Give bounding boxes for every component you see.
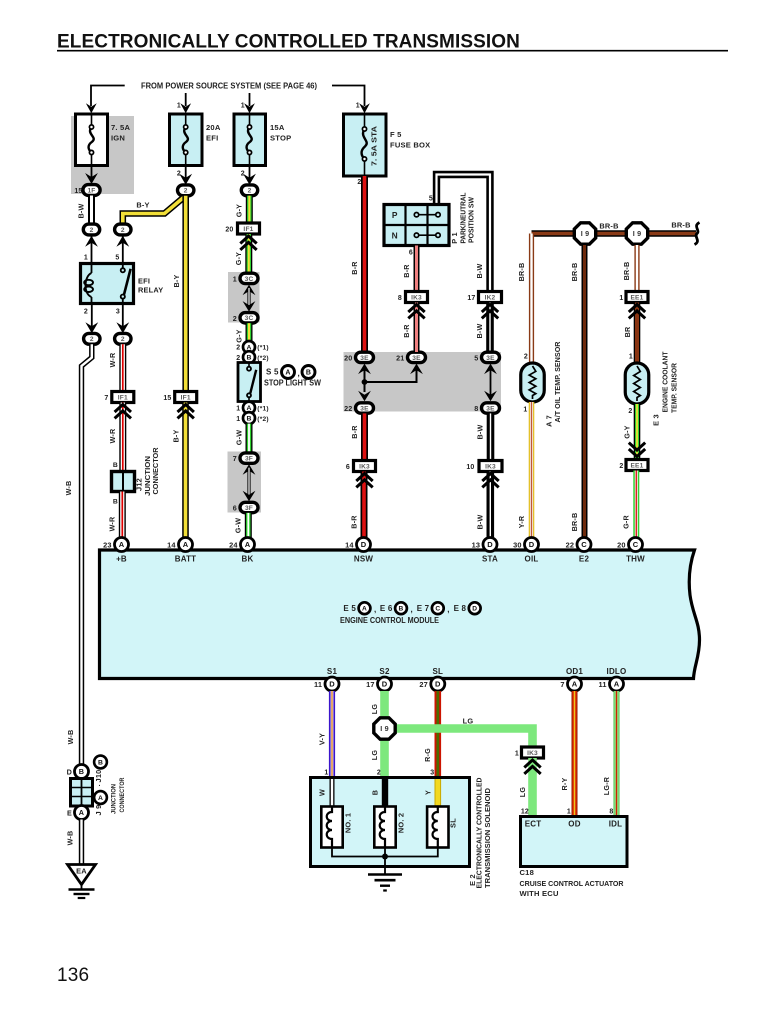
wire relay pin3 down — [122, 304, 124, 328]
chevron below 6 IK3 — [356, 474, 372, 482]
svg-text:BR-B: BR-B — [517, 263, 526, 282]
svg-text:6: 6 — [346, 464, 350, 471]
svg-text:G-W: G-W — [234, 430, 243, 445]
svg-text:IF1: IF1 — [243, 226, 253, 233]
wire relay pin2 down — [91, 304, 93, 328]
arrow up below 5 3E — [484, 364, 497, 375]
fuse 20A EFI — [170, 114, 203, 166]
switch S5 stop light box — [238, 363, 261, 402]
svg-text:BR-B: BR-B — [570, 263, 579, 282]
svg-text:W-B: W-B — [64, 481, 73, 496]
wire LG horizontal bus — [393, 729, 533, 748]
solenoid coil SL — [427, 807, 448, 848]
connector 1 3C — [240, 273, 258, 283]
svg-text:14: 14 — [167, 541, 176, 550]
wire W-R J12 to ECM +B — [119, 492, 126, 538]
wire B-W IGN fuse to relay connector — [88, 196, 95, 225]
svg-text:IK3: IK3 — [411, 294, 422, 301]
svg-text:E2: E2 — [579, 555, 590, 564]
svg-text:W-B: W-B — [66, 831, 75, 846]
wire R-Y OD1 to cruise OD — [572, 691, 578, 817]
pin circle A J9 — [94, 791, 107, 804]
svg-text:D: D — [361, 540, 367, 549]
svg-text:D: D — [329, 680, 335, 689]
connector 6 IK3 — [354, 461, 376, 472]
svg-text:1: 1 — [241, 103, 245, 110]
wire W inside solenoid — [330, 779, 335, 807]
svg-text:23: 23 — [103, 541, 112, 550]
arrow up below 20 3E — [358, 364, 371, 375]
wire W-B relay to junction connector — [82, 344, 92, 765]
svg-text:.: . — [99, 781, 101, 788]
svg-text:2: 2 — [184, 188, 188, 195]
wire connector to EFI relay pin 5 — [122, 237, 124, 264]
wire connector to EFI relay pin 1 — [91, 237, 93, 264]
svg-text:EE1: EE1 — [630, 294, 643, 301]
svg-text:D: D — [435, 680, 441, 689]
svg-text:1: 1 — [84, 255, 88, 262]
svg-text:A: A — [79, 808, 84, 817]
wire Y inside solenoid — [434, 779, 441, 807]
svg-text:2: 2 — [90, 227, 94, 234]
svg-text:5: 5 — [474, 354, 478, 363]
arrow down above 6 3F — [243, 491, 256, 502]
svg-text:136: 136 — [57, 965, 89, 986]
svg-text:12: 12 — [521, 809, 529, 816]
connector 7 IF1 — [112, 392, 134, 403]
svg-text:22: 22 — [344, 404, 352, 413]
svg-text:ENGINE CONTROL MODULE: ENGINE CONTROL MODULE — [340, 616, 440, 625]
svg-text:BR-B: BR-B — [622, 262, 631, 281]
continuation curl — [695, 223, 700, 245]
wire V-Y S1 to solenoid — [329, 691, 335, 778]
svg-text:2: 2 — [628, 408, 632, 415]
svg-text:10: 10 — [466, 464, 474, 471]
arrow down above 22 3E — [358, 391, 371, 402]
svg-text:A: A — [183, 540, 189, 549]
gray panel behind 3E — [344, 352, 502, 412]
arrow into EFI fuse — [180, 103, 191, 113]
ECM engine control module box — [100, 550, 700, 679]
sensor E3 engine coolant temp — [625, 363, 649, 404]
svg-text:NO. 2: NO. 2 — [397, 813, 406, 833]
connector 5 3E — [482, 352, 500, 362]
svg-text:1: 1 — [629, 354, 633, 361]
svg-text:EA: EA — [76, 867, 87, 876]
svg-text:3E: 3E — [360, 355, 369, 362]
svg-text:B-R: B-R — [350, 425, 359, 439]
svg-text:THW: THW — [626, 555, 645, 564]
svg-text:1: 1 — [324, 770, 328, 777]
svg-text:LG: LG — [370, 704, 379, 715]
relay EFI RELAY box — [81, 264, 134, 304]
arrow into connector 1F — [85, 173, 98, 184]
junction connector J12 — [112, 472, 135, 492]
wire B-W P/N pin5 up and over — [437, 175, 491, 292]
svg-text:TEMP. SENSOR: TEMP. SENSOR — [670, 362, 679, 413]
svg-text:STA: STA — [482, 555, 498, 564]
svg-text:D: D — [487, 540, 493, 549]
wire branch to 21 3E — [365, 367, 417, 382]
svg-text:B-R: B-R — [350, 261, 359, 275]
wire EFI fuse feed — [185, 93, 187, 106]
wire G-Y IF1 to 3C — [245, 234, 252, 273]
svg-text:(*1): (*1) — [257, 345, 268, 352]
svg-text:(*2): (*2) — [257, 355, 268, 362]
connector 8 3E — [482, 403, 500, 413]
svg-text:S1: S1 — [327, 667, 338, 676]
connector 8 IK3 — [406, 292, 428, 303]
svg-text:1F: 1F — [87, 187, 95, 194]
wire solenoid commons — [332, 848, 438, 857]
svg-text:E 5: E 5 — [343, 604, 356, 613]
wire G-Y 3C to stop light switch — [246, 323, 253, 342]
svg-text:2: 2 — [524, 354, 528, 361]
svg-text:D: D — [382, 680, 388, 689]
svg-text:20: 20 — [225, 227, 233, 234]
wire G-W switch to 3F — [246, 424, 253, 453]
svg-text:I 9: I 9 — [633, 229, 642, 238]
connector 20 IF1 — [238, 223, 260, 234]
connector 21 3E — [408, 352, 426, 362]
svg-text:EFI: EFI — [138, 277, 150, 286]
svg-text:LG: LG — [518, 787, 527, 798]
wire W-R to IF1 — [119, 344, 126, 392]
svg-text:2: 2 — [121, 336, 125, 343]
svg-text:I 9: I 9 — [380, 724, 389, 733]
svg-text:A/T OIL TEMP. SENSOR: A/T OIL TEMP. SENSOR — [553, 341, 562, 423]
svg-text:IDL: IDL — [609, 820, 623, 829]
svg-text:1: 1 — [515, 751, 519, 758]
wire STOP fuse feed — [249, 93, 251, 106]
svg-text:B: B — [306, 370, 311, 377]
svg-text:IGN: IGN — [111, 134, 125, 143]
fuse 7.5A IGN — [76, 114, 108, 166]
pin circle D B — [75, 765, 89, 779]
svg-text:S2: S2 — [379, 667, 390, 676]
svg-text:B-W: B-W — [475, 515, 484, 530]
svg-text:I 9: I 9 — [581, 229, 590, 238]
wire B-R 22 3E to IK3 — [361, 413, 368, 460]
svg-text:,: , — [374, 605, 376, 614]
arrow down above 8 3E — [484, 391, 497, 402]
wire B-R pink P/N pin6 to IK3 — [414, 246, 420, 292]
svg-text:E 3: E 3 — [652, 414, 661, 426]
svg-text:2: 2 — [377, 770, 381, 777]
EFI relay switch — [122, 264, 124, 269]
connector 2 lower-right — [115, 333, 131, 344]
svg-text:(*2): (*2) — [257, 416, 268, 423]
title underline — [57, 50, 728, 52]
svg-text:E 7: E 7 — [417, 604, 430, 613]
wire B-Y branch to relay pin 5 — [123, 198, 184, 225]
chevron below IF1 left — [115, 405, 131, 413]
svg-text:15A: 15A — [270, 123, 285, 132]
svg-text:3C: 3C — [245, 315, 254, 322]
svg-text:1: 1 — [236, 416, 240, 423]
pin circle 2 A — [243, 341, 255, 353]
wire BR-B horizontal bus — [532, 230, 697, 236]
svg-text:2: 2 — [236, 355, 240, 362]
svg-text:2: 2 — [90, 336, 94, 343]
connector 2 3C — [240, 313, 258, 323]
svg-text:STOP LIGHT SW: STOP LIGHT SW — [264, 379, 321, 388]
wire to ground — [384, 857, 386, 875]
connector 2 EE1 — [626, 460, 648, 471]
svg-text:D: D — [529, 540, 535, 549]
svg-text:OD: OD — [568, 820, 580, 829]
svg-text:20: 20 — [344, 354, 352, 363]
svg-text:RELAY: RELAY — [138, 286, 163, 295]
svg-text:B-R: B-R — [349, 515, 358, 529]
arrow up below 21 3E — [410, 364, 423, 375]
wire header right bracket — [332, 86, 365, 107]
svg-text:D: D — [67, 768, 72, 777]
svg-text:A: A — [614, 680, 620, 689]
svg-text:17: 17 — [467, 295, 475, 302]
svg-text:,: , — [447, 605, 449, 614]
wire B-Y IF1 to ECM BATT — [182, 403, 189, 538]
svg-text:7: 7 — [233, 454, 237, 463]
svg-text:N: N — [392, 231, 398, 241]
svg-text:B-W: B-W — [476, 425, 485, 440]
chevron below 20 IF1 — [240, 236, 256, 244]
svg-text:C: C — [633, 540, 639, 549]
svg-text:C: C — [435, 606, 440, 613]
arrow into connector 2 EFI — [179, 174, 192, 185]
svg-text:SL: SL — [432, 667, 443, 676]
svg-text:BATT: BATT — [175, 555, 197, 564]
svg-text:B: B — [246, 416, 251, 423]
svg-text:ECT: ECT — [525, 820, 542, 829]
chevron below 17 IK2 — [482, 305, 498, 313]
solenoid E2 box — [311, 778, 470, 867]
svg-text:11: 11 — [598, 680, 606, 689]
svg-text:2: 2 — [121, 227, 125, 234]
svg-text:+B: +B — [116, 555, 127, 564]
svg-text:C: C — [581, 540, 587, 549]
svg-text:17: 17 — [366, 680, 375, 689]
svg-text:2: 2 — [619, 463, 623, 470]
svg-text:3F: 3F — [245, 505, 253, 512]
svg-text:S 5: S 5 — [266, 368, 279, 377]
wire between 3F connectors — [247, 468, 250, 498]
svg-text:3E: 3E — [486, 355, 495, 362]
svg-text:2: 2 — [177, 171, 181, 178]
node junction in 3E panel — [362, 379, 368, 385]
svg-text:E 8: E 8 — [454, 604, 467, 613]
arrow into STOP fuse — [244, 103, 255, 113]
svg-text:2: 2 — [357, 179, 361, 186]
svg-text:6: 6 — [233, 504, 237, 513]
svg-text:IK3: IK3 — [527, 750, 538, 757]
connector 1 IK3 cruise — [522, 747, 544, 758]
svg-text:3E: 3E — [360, 405, 369, 412]
svg-text:OD1: OD1 — [566, 667, 583, 676]
svg-text:Y-R: Y-R — [517, 515, 526, 528]
svg-text:STOP: STOP — [270, 134, 291, 143]
wire B-W IK3 to ECM STA — [486, 472, 494, 538]
connector 2 lower-left — [84, 333, 100, 344]
svg-text:SL: SL — [449, 818, 458, 828]
svg-text:BR: BR — [623, 326, 632, 337]
wire BR-B down to oil temp sensor — [529, 234, 534, 364]
gray panel behind 3F — [228, 452, 262, 513]
svg-text:A: A — [98, 795, 103, 802]
svg-text:G-Y: G-Y — [622, 425, 631, 438]
svg-text:A: A — [119, 540, 125, 549]
svg-text:W-B: W-B — [66, 730, 75, 745]
svg-text:ELECTRONICALLY CONTROLLED TRAN: ELECTRONICALLY CONTROLLED TRANSMISSION — [57, 32, 520, 53]
sensor A7 A/T oil temp — [521, 363, 545, 402]
svg-text:TRANSMISSION SOLENOID: TRANSMISSION SOLENOID — [483, 787, 492, 888]
gray panel behind 3C — [228, 272, 260, 323]
svg-text:20A: 20A — [206, 123, 221, 132]
solenoid coil NO.2 — [374, 807, 395, 848]
wire BR EE1 to coolant sensor — [634, 303, 641, 364]
chevron below 10 IK3 — [482, 474, 498, 482]
svg-text:NO. 1: NO. 1 — [344, 813, 353, 833]
svg-text:1: 1 — [523, 407, 527, 414]
arrow into connector 2 STOP — [243, 174, 256, 185]
svg-text:R-G: R-G — [423, 748, 432, 762]
svg-text:E 6: E 6 — [380, 604, 393, 613]
svg-text:FUSE BOX: FUSE BOX — [390, 141, 430, 150]
svg-text:1: 1 — [177, 103, 181, 110]
svg-text:P: P — [392, 210, 398, 220]
svg-text:8: 8 — [474, 404, 478, 413]
wire header left bracket — [91, 86, 125, 107]
wire G-W 3F to ECM BK — [245, 513, 252, 538]
solenoid coil NO.1 — [321, 807, 342, 848]
svg-text:B: B — [98, 759, 103, 766]
arrow into connector 2 lower-right — [116, 322, 129, 333]
fuse 15A STOP — [234, 114, 266, 166]
chevron above 2 EE1 — [629, 449, 645, 457]
wire between 5 and 8 3E — [490, 367, 492, 398]
ground EA triangle — [68, 865, 96, 885]
svg-text:A: A — [572, 680, 578, 689]
svg-text:3E: 3E — [486, 405, 495, 412]
wire G-R EE1 to ECM THW — [633, 471, 639, 538]
connector 20 3E — [356, 352, 374, 362]
wire B-W 8 3E to IK3 — [487, 413, 495, 460]
svg-text:IDLO: IDLO — [607, 667, 627, 676]
svg-text:J 9: J 9 — [94, 805, 103, 816]
wire between 3C connectors — [247, 288, 250, 308]
connector 15 IF1 — [175, 392, 197, 403]
connector 1 EE1 — [626, 292, 648, 303]
svg-text:LG: LG — [370, 750, 379, 761]
svg-text:8: 8 — [398, 295, 402, 302]
svg-text:30: 30 — [513, 541, 522, 550]
svg-text:BR-B: BR-B — [671, 221, 690, 230]
svg-text:27: 27 — [419, 680, 428, 689]
svg-text:B-R: B-R — [402, 324, 411, 338]
arrow up below 7 3F — [243, 464, 256, 475]
svg-text:LG: LG — [463, 717, 474, 726]
svg-text:1: 1 — [567, 809, 571, 816]
svg-text:2: 2 — [84, 309, 88, 316]
svg-text:13: 13 — [472, 541, 481, 550]
svg-text:G-Y: G-Y — [234, 329, 243, 342]
wire B-W IK2 to 5 3E — [486, 303, 494, 353]
cruise control actuator box — [521, 817, 628, 867]
svg-text:,: , — [411, 605, 413, 614]
svg-text:LG-R: LG-R — [602, 776, 611, 795]
svg-text:D: D — [472, 606, 477, 613]
connector 2 below STOP fuse — [241, 185, 257, 196]
svg-text:W-R: W-R — [108, 352, 117, 367]
svg-text:B: B — [399, 606, 404, 613]
pin circle B J10 — [94, 756, 107, 769]
svg-text:JUNCTION: JUNCTION — [111, 784, 118, 814]
chevron below 8 IK3 — [408, 305, 424, 313]
arrow into IGN fuse — [86, 103, 97, 113]
gray panel behind IGN fuse — [71, 116, 134, 194]
connector 7 3F — [240, 453, 258, 463]
wire BR-B down to EE1 — [634, 245, 639, 292]
junction octagon I9 second — [626, 223, 647, 244]
junction octagon I9 below ECM — [374, 718, 395, 739]
P/N contacts P row — [414, 213, 418, 217]
svg-text:C18: C18 — [520, 868, 535, 877]
svg-text:IK3: IK3 — [485, 463, 496, 470]
pin circle 1 B — [243, 412, 255, 424]
svg-text:EFI: EFI — [206, 134, 218, 143]
svg-text:POSITION SW: POSITION SW — [467, 197, 476, 243]
svg-text:A: A — [285, 370, 290, 377]
svg-text:B-R: B-R — [402, 264, 411, 278]
svg-text:G-W: G-W — [234, 518, 243, 533]
ground symbol solenoid — [368, 873, 402, 876]
P/N contacts N row — [414, 233, 418, 237]
node solenoid ground junction — [382, 854, 388, 860]
svg-text:IK3: IK3 — [359, 463, 370, 470]
wire LG-R IDLO to cruise IDL — [614, 691, 620, 817]
ground symbol EA — [81, 885, 83, 889]
svg-text:OIL: OIL — [525, 555, 539, 564]
wire B-Y EFI fuse down to IF1 — [182, 196, 189, 392]
svg-text:1: 1 — [233, 275, 237, 284]
svg-text:BR-B: BR-B — [599, 222, 618, 231]
svg-text:14: 14 — [345, 541, 354, 550]
wire 20 3E to junction node — [364, 367, 366, 392]
svg-text:F 5: F 5 — [390, 130, 402, 139]
wire R-G SL to solenoid — [434, 691, 441, 778]
svg-text:IF1: IF1 — [118, 394, 128, 401]
svg-text:21: 21 — [396, 354, 404, 363]
svg-text:,: , — [298, 369, 300, 378]
svg-text:WITH ECU: WITH ECU — [520, 889, 559, 898]
wire W-R IF1 to J12 — [119, 403, 126, 472]
svg-text:W-R: W-R — [108, 516, 117, 531]
svg-text:5: 5 — [429, 196, 433, 203]
svg-text:8: 8 — [609, 809, 613, 816]
arrow up into connector 2 left — [85, 236, 98, 247]
svg-text:15: 15 — [163, 395, 171, 402]
connector 2 upper-right — [115, 224, 131, 235]
svg-text:A: A — [362, 606, 367, 613]
svg-text:A: A — [245, 540, 251, 549]
junction connector J9/J10 box — [71, 779, 93, 807]
svg-text:B-Y: B-Y — [136, 201, 149, 210]
svg-text:V-Y: V-Y — [317, 733, 326, 745]
wire B inside solenoid — [382, 779, 388, 807]
svg-text:2: 2 — [233, 314, 237, 323]
svg-text:BK: BK — [242, 555, 254, 564]
svg-text:FROM POWER SOURCE SYSTEM (SEE: FROM POWER SOURCE SYSTEM (SEE PAGE 46) — [141, 81, 317, 90]
